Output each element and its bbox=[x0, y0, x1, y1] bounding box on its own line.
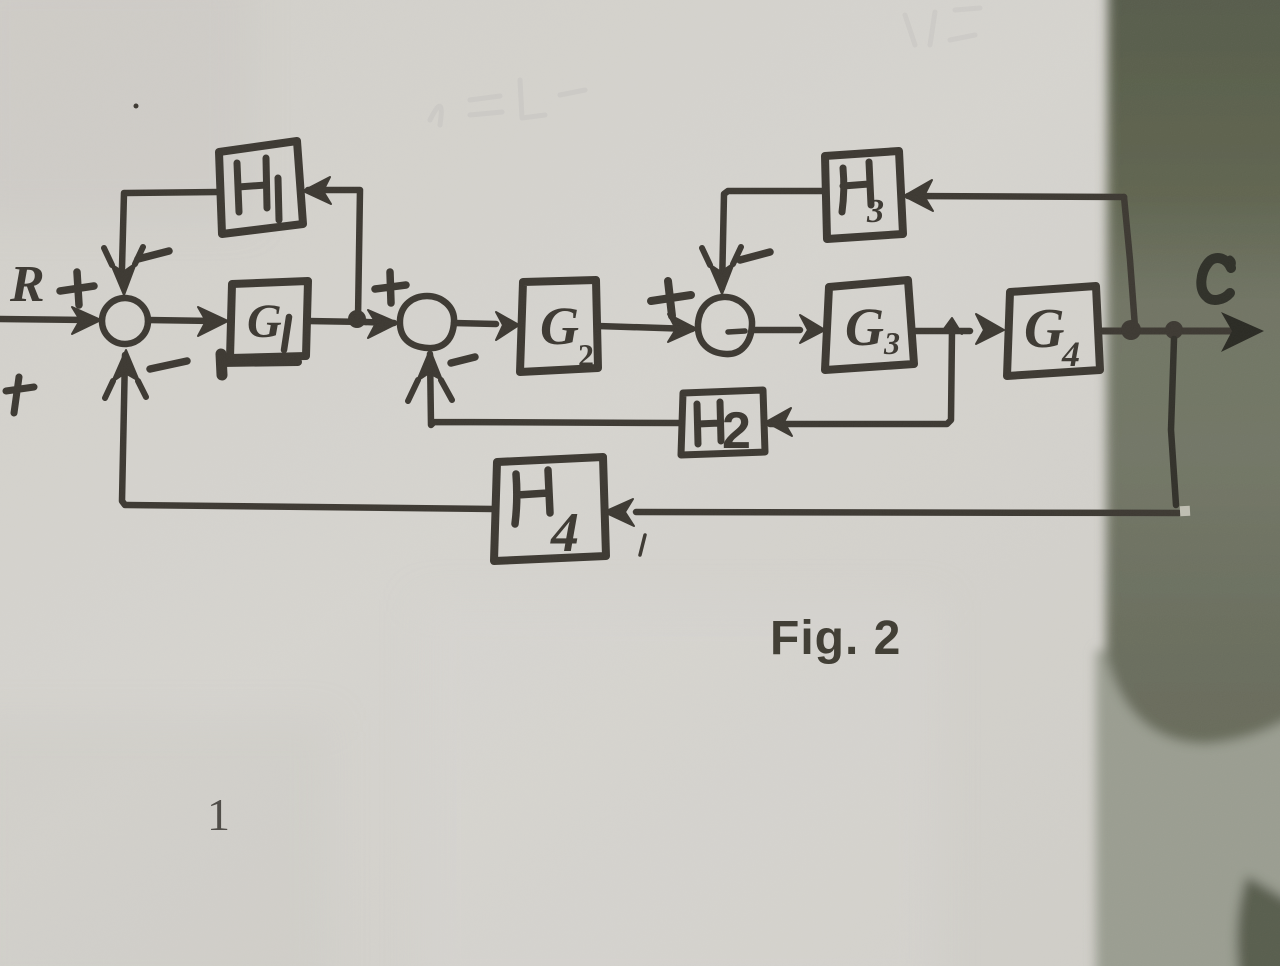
arrowhead into H3 right bbox=[904, 180, 933, 211]
label H3 bbox=[842, 162, 871, 212]
wire: H2 output to summer 2 bottom bbox=[430, 354, 681, 425]
pen-lift light notch at H4 corner bbox=[1180, 506, 1191, 517]
arrowhead into summer 3 top bbox=[709, 263, 734, 294]
summing junction S3 bbox=[698, 297, 752, 354]
minus at summer 2 bottom bbox=[451, 357, 475, 363]
node C label bbox=[1201, 258, 1231, 300]
arrowhead into summer 3 bbox=[668, 314, 697, 342]
block G2 bbox=[520, 280, 598, 372]
wire: summer 3 to G3 bbox=[752, 327, 800, 334]
wire: summer 2 to G2 bbox=[454, 323, 496, 324]
arrowhead into summer 2 bottom bbox=[417, 350, 442, 381]
arrowhead into H1 right bbox=[303, 177, 331, 204]
junction dot at H3 tap bbox=[1121, 320, 1141, 340]
junction dot after G1 bbox=[348, 310, 366, 328]
arrowhead into G4 bbox=[976, 314, 1004, 344]
wire: G2 to summer 3 bbox=[598, 326, 692, 329]
wire: summer1 to G1 bbox=[148, 320, 215, 321]
block H1 bbox=[219, 141, 303, 234]
arrowhead into summer 1 left bbox=[72, 307, 101, 334]
plus sign at summer 3 bbox=[651, 281, 691, 316]
arrowhead into summer 1 bottom bbox=[112, 350, 139, 382]
wire: output tap to H3 input bbox=[908, 196, 1124, 197]
arrowhead into G2 bbox=[496, 312, 519, 340]
wire: R input line into summer 1 bbox=[0, 319, 88, 320]
stray dot top left bbox=[134, 104, 139, 109]
minus sign at summer1 top bbox=[138, 251, 169, 259]
block H2 bbox=[681, 390, 765, 455]
wire: H3 output to summer 3 top bbox=[722, 191, 823, 288]
arrowhead into summer 1 top bbox=[111, 263, 136, 295]
tee arrowhead at H2 tap bbox=[941, 318, 962, 334]
faint ghost marks top bbox=[430, 8, 980, 125]
summing junction S1 bbox=[102, 298, 148, 344]
block G4 bbox=[1007, 286, 1100, 376]
block H3 bbox=[825, 151, 903, 239]
wire: G1 to summer 2 bbox=[308, 321, 366, 322]
output arrowhead bbox=[1221, 312, 1264, 352]
block G1 bbox=[230, 281, 308, 358]
label H2 bbox=[697, 402, 721, 444]
arrowhead into H2 right bbox=[766, 408, 792, 436]
wire: H1 output to summer 1 top bbox=[122, 192, 218, 268]
wire: H4 output left and up to summer 1 bottom bbox=[122, 355, 494, 509]
plus sign at summer 2 bbox=[375, 272, 406, 303]
wire: tap down and left to H2 bbox=[770, 330, 952, 424]
arrowhead into G1 bbox=[198, 307, 228, 336]
summing junction S2 bbox=[400, 296, 454, 348]
arrowhead into H4 right bbox=[604, 499, 634, 526]
label H1 bbox=[237, 158, 279, 220]
block G3 bbox=[825, 280, 914, 370]
right-side shadow band bbox=[1096, 0, 1280, 966]
wire: G4 to output C bbox=[1100, 328, 1245, 335]
junction dot at H4 tap bbox=[1165, 321, 1183, 339]
minus inside summer 3 bbox=[728, 331, 745, 332]
wire: output down to H4 bbox=[1171, 339, 1176, 505]
wire: junction after G1 up to H1 input bbox=[308, 190, 360, 318]
arrowhead into G3 bbox=[800, 315, 825, 343]
stray t mark lower left bbox=[6, 377, 34, 413]
stray tick near H4 bbox=[640, 535, 645, 555]
label H4 bbox=[515, 470, 550, 524]
arrowhead into summer 2 bbox=[368, 310, 398, 338]
minus at summer 1 bottom bbox=[150, 361, 187, 369]
wire: G3 to G4 with H2 tap bbox=[914, 328, 970, 335]
block H4 bbox=[494, 457, 606, 561]
minus at summer 3 top bbox=[740, 252, 770, 260]
plus sign at R input bbox=[60, 272, 94, 305]
